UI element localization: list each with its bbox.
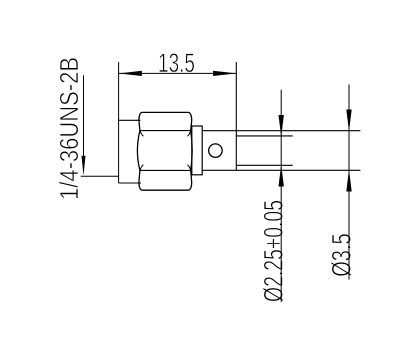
inner bore bottom line [236, 164, 292, 166]
arrowhead 13.5 left [119, 71, 142, 76]
arrowhead 3.5 bottom [346, 170, 351, 192]
collar ring [192, 126, 202, 175]
leader landing line [81, 175, 119, 177]
hex chamfer arc bottom-left [140, 165, 143, 170]
arrowhead 13.5 right [213, 71, 236, 76]
svg-text:Ø2.25+0.05: Ø2.25+0.05 [258, 200, 288, 302]
hex nut lower chamfer line [140, 169, 190, 171]
tube outer top line [202, 130, 360, 132]
cross hole circle [209, 144, 223, 158]
tube outer bottom line [202, 169, 360, 171]
hex nut outline [137, 112, 192, 190]
extension line / threaded barrel left edge [118, 62, 120, 183]
leader line vertical (thread callout) [83, 75, 85, 160]
threaded barrel top edge [119, 119, 141, 121]
dimension line 2.25 (continuous) [280, 90, 282, 302]
arrowhead 2.25 bottom [279, 165, 284, 187]
threaded barrel bottom edge [119, 182, 141, 184]
dimension line 13.5 [119, 72, 237, 74]
arrowhead leader down [82, 156, 86, 176]
dimension line 3.5 (continuous) [348, 84, 350, 279]
hex chamfer arc top-right [187, 131, 190, 136]
hex chamfer arc top-left [140, 131, 143, 136]
svg-text:Ø3.5: Ø3.5 [326, 233, 356, 277]
hex chamfer arc bottom-right [187, 165, 190, 170]
svg-text:1/4-36UNS-2B: 1/4-36UNS-2B [54, 57, 84, 200]
body step edge / right extension line [235, 62, 237, 171]
inner bore top line [236, 135, 292, 137]
arrowhead 3.5 top [346, 110, 351, 132]
svg-text:13.5: 13.5 [158, 48, 195, 78]
hex nut upper chamfer line [140, 130, 190, 132]
arrowhead 2.25 top [279, 115, 284, 137]
